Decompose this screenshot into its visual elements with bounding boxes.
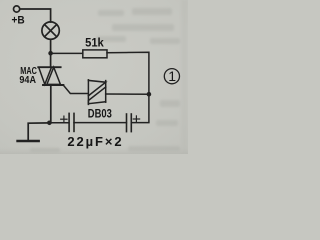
terminal +B <box>14 6 20 12</box>
lamp <box>42 22 59 39</box>
wire node A to triac MT2 <box>50 53 52 67</box>
ground <box>18 140 39 143</box>
C1 polarity plus <box>61 116 67 122</box>
capacitor C2 <box>127 114 132 132</box>
diac DB03 <box>88 80 105 105</box>
resistor 51k <box>83 50 107 58</box>
wire node A to resistor <box>51 52 83 54</box>
wire node C to capacitor C1 <box>49 122 69 124</box>
wire lamp to node A <box>50 39 52 53</box>
node A junction <box>48 51 53 56</box>
svg-text:51k: 51k <box>85 35 104 49</box>
svg-text:+B: +B <box>12 14 25 26</box>
node B junction <box>147 92 152 97</box>
wire terminal to lamp <box>20 9 51 22</box>
node C junction <box>47 121 52 126</box>
label 22uFx2 <box>67 134 123 149</box>
C2 polarity plus <box>133 116 139 122</box>
wire C1 to C2 <box>74 122 126 124</box>
svg-text:94A: 94A <box>19 75 36 86</box>
label MAC 94A <box>19 66 37 86</box>
triac U1 MAC94A <box>38 67 63 85</box>
wire resistor to right corner and down <box>107 52 149 94</box>
triac gate lead <box>63 85 88 93</box>
label +B <box>12 14 25 26</box>
capacitor C1 <box>69 113 74 131</box>
circled node number 1 <box>164 68 179 84</box>
label 51k <box>85 35 104 49</box>
wire diac to node B <box>106 93 149 95</box>
wire bottom rail to ground <box>28 123 49 141</box>
background paper <box>0 0 188 154</box>
wire triac MT1 to bottom rail <box>50 85 52 123</box>
label DB03 <box>88 109 112 121</box>
wire node B down to capacitor rail <box>132 94 149 122</box>
svg-text:1: 1 <box>168 68 176 84</box>
svg-text:22µF×2: 22µF×2 <box>67 134 123 149</box>
svg-text:DB03: DB03 <box>88 109 112 121</box>
